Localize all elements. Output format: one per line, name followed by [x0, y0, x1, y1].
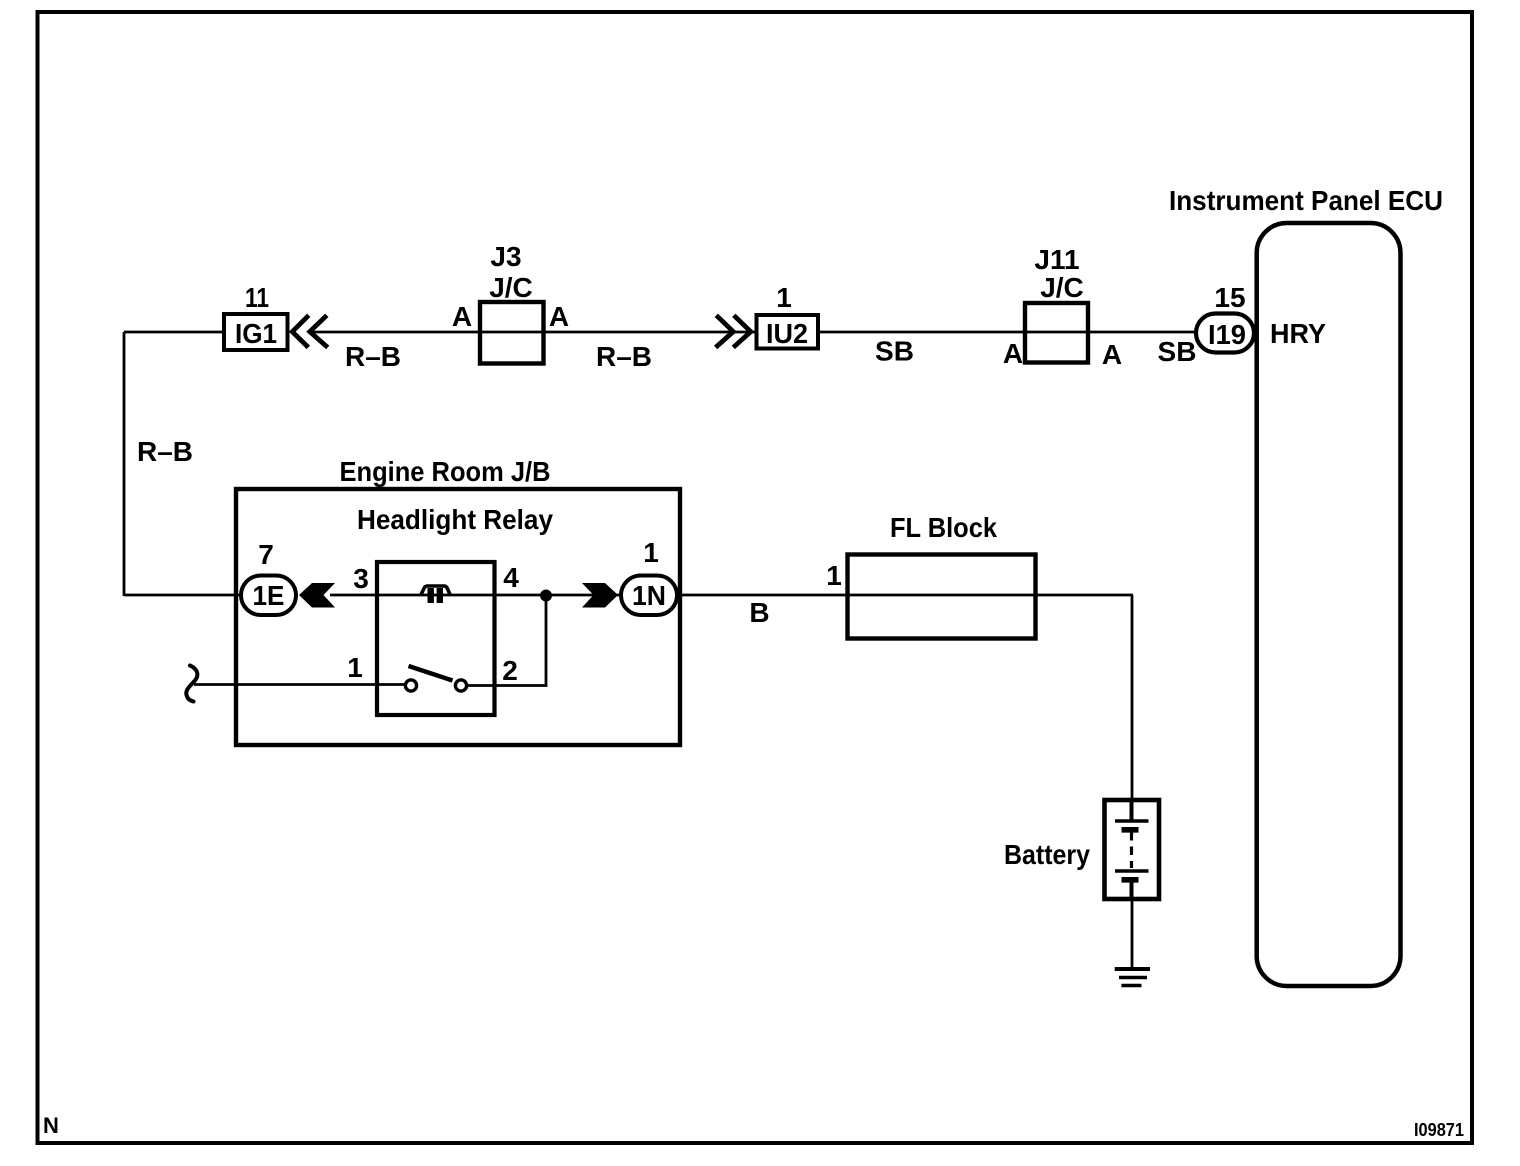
- wire: IG1 to IU2 through J3: [310, 331, 756, 334]
- svg-text:R–B: R–B: [596, 341, 652, 372]
- svg-text:Headlight Relay: Headlight Relay: [357, 504, 553, 535]
- svg-text:1: 1: [776, 282, 792, 313]
- svg-text:2: 2: [502, 655, 518, 686]
- junction connector J3 J/C: [480, 302, 544, 364]
- battery cell 1 long plate: [1115, 819, 1149, 822]
- wire: to 1E: [124, 594, 244, 597]
- switch contact circle 2: [455, 680, 466, 691]
- svg-text:7: 7: [258, 539, 274, 570]
- svg-text:A: A: [1102, 339, 1122, 370]
- svg-text:IG1: IG1: [235, 318, 277, 349]
- arrow into 1E (left-pointing solid): [299, 583, 335, 608]
- connector IG1: [224, 314, 288, 350]
- battery top lead: [1130, 800, 1134, 820]
- svg-text:Battery: Battery: [1004, 839, 1090, 870]
- svg-text:Instrument Panel ECU: Instrument Panel ECU: [1169, 185, 1443, 216]
- svg-text:J11: J11: [1034, 244, 1079, 275]
- battery cell 1 short plate: [1122, 827, 1139, 833]
- FL Block box: [848, 555, 1036, 639]
- battery cell 2 long plate: [1115, 869, 1149, 872]
- arrow into 1N (right-pointing solid): [582, 583, 618, 608]
- svg-text:SB: SB: [875, 336, 914, 367]
- wire: 1N to FL Block to elbow: [674, 594, 1133, 597]
- battery bottom lead: [1130, 880, 1134, 899]
- svg-text:J3: J3: [490, 241, 521, 272]
- svg-text:1E: 1E: [253, 580, 285, 611]
- svg-text:FL Block: FL Block: [890, 512, 997, 543]
- wire: vertical R-B branch: [123, 332, 126, 596]
- svg-text:A: A: [1003, 338, 1023, 369]
- connector IU2: [757, 315, 819, 349]
- relay coil bar 2: [437, 588, 443, 603]
- svg-text:HRY: HRY: [1270, 318, 1326, 349]
- wire: IG1 stub left: [124, 331, 224, 334]
- wire: elbow down to battery: [1131, 595, 1134, 800]
- battery cell 2 short plate: [1122, 877, 1139, 883]
- battery box: [1105, 800, 1160, 899]
- svg-text:R–B: R–B: [345, 341, 401, 372]
- switch contact circle 1: [405, 680, 416, 691]
- connector I19: [1196, 314, 1254, 353]
- svg-text:4: 4: [503, 562, 519, 593]
- ground symbol: [1115, 967, 1150, 971]
- svg-text:Engine Room J/B: Engine Room J/B: [340, 456, 551, 487]
- Instrument Panel ECU box: [1257, 223, 1401, 986]
- headlight relay box: [377, 562, 495, 715]
- junction node dot: [540, 590, 552, 602]
- svg-text:1N: 1N: [632, 580, 666, 611]
- svg-text:N: N: [43, 1113, 59, 1138]
- wire: pin1 row from squiggle: [194, 683, 406, 686]
- wire: battery to ground: [1131, 899, 1134, 969]
- svg-text:J/C: J/C: [1040, 272, 1084, 303]
- relay coil bump: [421, 586, 451, 596]
- svg-text:15: 15: [1214, 282, 1245, 313]
- switch blade: [409, 666, 453, 681]
- wire: switch pin2 to vertical: [466, 684, 547, 687]
- svg-text:B: B: [749, 597, 769, 628]
- squiggle (wire continuation mark): [186, 666, 197, 702]
- svg-text:I09871: I09871: [1414, 1120, 1464, 1140]
- svg-text:1: 1: [826, 560, 842, 591]
- chevron arrows (double, pointing left): [292, 315, 327, 347]
- svg-text:IU2: IU2: [766, 318, 808, 349]
- Engine Room J/B box: [236, 489, 680, 745]
- wire: vertical pin2 to junction: [545, 595, 548, 687]
- svg-text:3: 3: [353, 563, 369, 594]
- junction connector J11 J/C: [1025, 303, 1088, 363]
- svg-text:1: 1: [347, 652, 363, 683]
- chevron arrows (double, pointing right): [716, 315, 751, 347]
- connector 1N: [621, 576, 677, 616]
- svg-text:A: A: [549, 301, 569, 332]
- svg-text:J/C: J/C: [489, 272, 533, 303]
- svg-text:1: 1: [643, 537, 659, 568]
- wire: IU2 to I19 through J11: [818, 331, 1198, 334]
- battery dashed link: [1130, 832, 1133, 868]
- svg-text:SB: SB: [1158, 336, 1197, 367]
- svg-text:R–B: R–B: [137, 436, 193, 467]
- connector 1E: [241, 576, 296, 616]
- svg-text:11: 11: [245, 282, 269, 313]
- wire: relay row 1E to 1N: [330, 594, 624, 597]
- svg-text:I19: I19: [1208, 319, 1246, 350]
- relay coil bar 1: [428, 588, 434, 603]
- svg-text:A: A: [452, 301, 472, 332]
